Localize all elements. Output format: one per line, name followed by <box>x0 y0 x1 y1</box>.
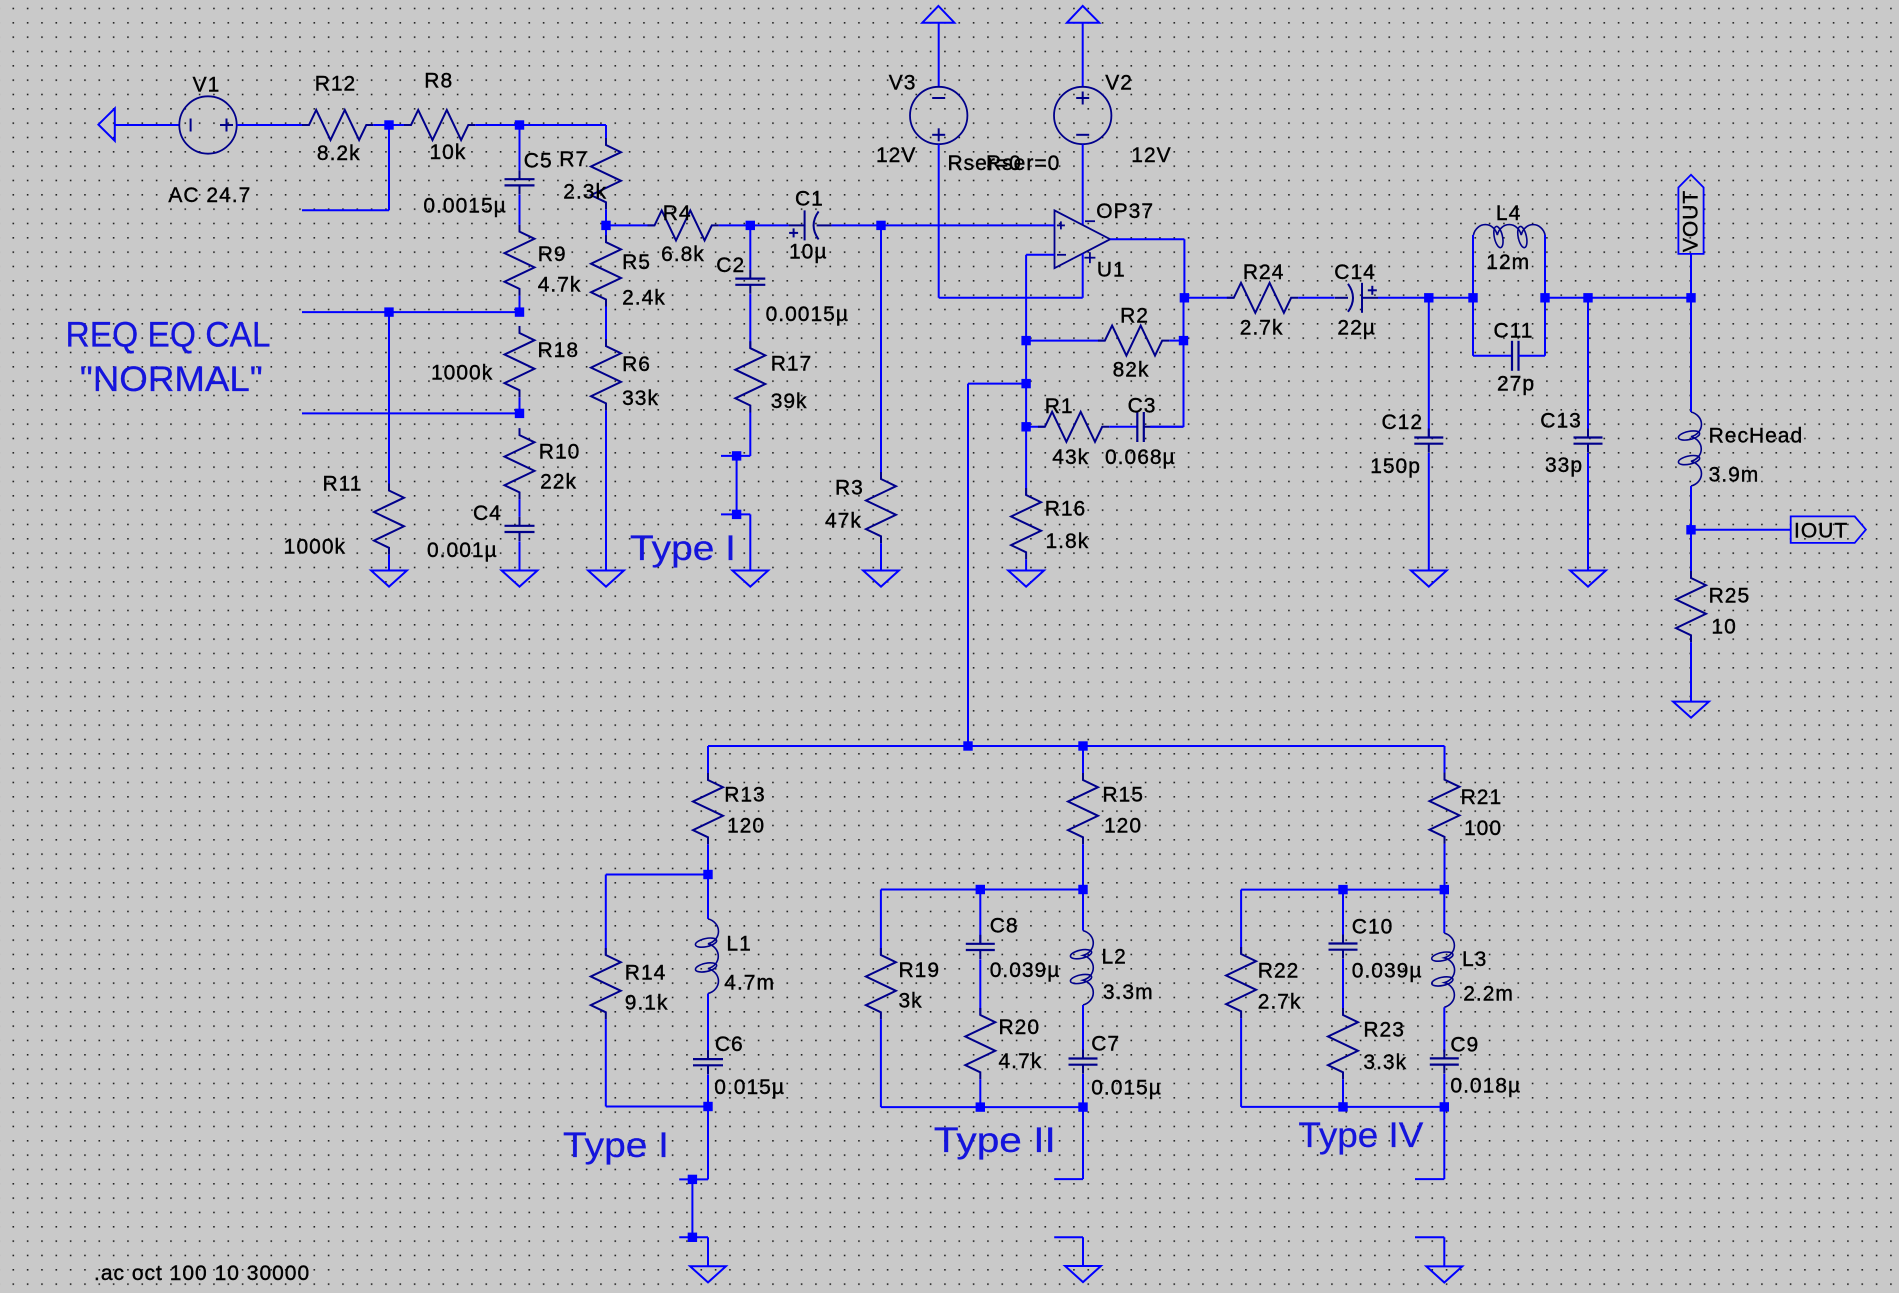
label R2 value <box>1113 358 1150 381</box>
junction <box>1686 525 1695 534</box>
svg-text:0.015µ: 0.015µ <box>714 1076 785 1099</box>
svg-text:22k: 22k <box>540 471 577 494</box>
capacitor C5 <box>505 170 535 194</box>
svg-text:10µ: 10µ <box>789 240 827 263</box>
wire <box>1082 1074 1084 1107</box>
capacitor C11 <box>1512 341 1519 371</box>
wire <box>1150 426 1183 428</box>
label L1 <box>726 932 751 955</box>
svg-text:C8: C8 <box>990 915 1019 938</box>
label R20 <box>999 1016 1041 1039</box>
junction <box>1338 885 1347 894</box>
svg-text:0.039µ: 0.039µ <box>990 959 1061 982</box>
wire <box>1587 453 1589 571</box>
wire <box>1428 453 1430 571</box>
svg-text:0.001µ: 0.001µ <box>427 539 498 562</box>
svg-text:R21: R21 <box>1461 786 1503 809</box>
wire <box>389 124 404 126</box>
wire <box>1691 529 1791 531</box>
svg-text:C11: C11 <box>1494 320 1534 343</box>
junction <box>688 1233 697 1242</box>
label V3 <box>889 72 917 95</box>
junction <box>976 885 985 894</box>
label R9 <box>538 243 567 266</box>
svg-text:12V: 12V <box>1131 144 1171 167</box>
junction <box>1338 1102 1347 1111</box>
svg-text:12V: 12V <box>876 144 916 167</box>
resistor R4 <box>648 210 719 240</box>
wire <box>979 1079 981 1107</box>
wire <box>1588 297 1691 299</box>
label C9 value <box>1450 1074 1521 1097</box>
wire <box>707 875 709 919</box>
junction <box>384 120 393 129</box>
wire <box>519 541 521 570</box>
junction <box>976 1102 985 1111</box>
wire <box>832 224 881 226</box>
junction <box>515 120 524 129</box>
inductor L2 <box>1070 931 1094 1005</box>
wire <box>1054 1236 1083 1238</box>
wire <box>707 1075 709 1107</box>
label R11 <box>323 473 363 496</box>
wire <box>1443 1237 1445 1266</box>
wire <box>1690 298 1692 412</box>
wire <box>707 844 709 874</box>
junction <box>1021 422 1030 431</box>
label R19 value <box>899 990 923 1013</box>
wire <box>1415 1178 1444 1180</box>
label R21 value <box>1464 817 1502 840</box>
wire <box>606 874 708 876</box>
svg-text:R14: R14 <box>625 962 667 985</box>
svg-text:1000k: 1000k <box>284 535 346 558</box>
svg-text:L1: L1 <box>726 932 751 955</box>
svg-text:10k: 10k <box>430 141 467 164</box>
svg-text:C3: C3 <box>1128 395 1157 418</box>
op-amp U1 <box>1055 210 1111 268</box>
wire <box>519 296 521 312</box>
resistor R24 <box>1227 283 1298 313</box>
ground <box>371 571 407 587</box>
resistor R16 <box>1011 488 1041 559</box>
label C1 value <box>789 240 827 263</box>
svg-text:Rser=0: Rser=0 <box>986 152 1060 175</box>
junction <box>1583 293 1592 302</box>
label U1 <box>1097 259 1126 282</box>
comment NORMAL <box>80 359 263 399</box>
label R25 <box>1709 585 1751 608</box>
label L3 <box>1462 948 1487 971</box>
resistor R20 <box>965 1008 995 1079</box>
svg-text:V3: V3 <box>889 72 917 95</box>
label R24 <box>1243 261 1285 284</box>
label R20 value <box>999 1050 1043 1073</box>
resistor R7 <box>591 138 621 209</box>
wire <box>1444 844 1446 890</box>
svg-text:Type IV: Type IV <box>1298 1115 1423 1155</box>
svg-text:R25: R25 <box>1709 585 1751 608</box>
junction <box>1180 293 1189 302</box>
svg-text:R24: R24 <box>1243 261 1285 284</box>
svg-text:R2: R2 <box>1120 304 1149 327</box>
svg-text:.ac oct 100 10 30000: .ac oct 100 10 30000 <box>94 1262 310 1285</box>
wire <box>1473 355 1512 357</box>
svg-text:100: 100 <box>1464 817 1502 840</box>
label C10 value <box>1352 959 1423 982</box>
wire <box>1443 1007 1445 1052</box>
wire <box>1241 1106 1444 1108</box>
wire <box>1026 426 1045 428</box>
svg-text:C4: C4 <box>473 502 502 525</box>
net flag IOUT <box>1791 516 1866 543</box>
label R14 <box>625 962 667 985</box>
label R18 <box>538 339 580 362</box>
svg-text:3.9m: 3.9m <box>1709 464 1760 487</box>
resistor R14 <box>591 948 621 1019</box>
ground <box>1065 1266 1101 1282</box>
wire <box>736 456 738 515</box>
svg-text:10: 10 <box>1711 615 1736 638</box>
wire <box>605 410 607 570</box>
svg-text:C6: C6 <box>715 1033 744 1056</box>
wire <box>1443 890 1445 934</box>
wire <box>749 225 751 269</box>
wire <box>1429 297 1473 299</box>
svg-text:0.039µ: 0.039µ <box>1352 959 1423 982</box>
capacitor C14 <box>1335 283 1378 313</box>
label IOUT <box>1794 520 1848 543</box>
svg-text:R8: R8 <box>424 69 453 92</box>
svg-text:C5: C5 <box>524 150 553 173</box>
svg-text:2.7k: 2.7k <box>1240 316 1284 339</box>
label R3 <box>835 476 864 499</box>
label V2 value <box>1131 144 1171 167</box>
junction <box>1440 885 1449 894</box>
wire <box>1378 297 1429 299</box>
label R7 value <box>563 181 607 204</box>
label V1 <box>193 74 221 97</box>
svg-text:C10: C10 <box>1352 915 1394 938</box>
svg-text:C9: C9 <box>1450 1034 1479 1057</box>
label R22 <box>1258 959 1300 982</box>
svg-text:22µ: 22µ <box>1337 316 1375 339</box>
label C6 <box>715 1033 744 1056</box>
junction <box>515 307 524 316</box>
svg-text:33k: 33k <box>622 387 659 410</box>
wire <box>881 889 1083 891</box>
wire <box>605 225 607 236</box>
label L4 <box>1496 202 1521 225</box>
net flag VOUT <box>1678 175 1703 254</box>
resistor R15 <box>1068 773 1098 844</box>
junction <box>1078 741 1087 750</box>
comment REQ EQ CAL <box>66 315 271 355</box>
power arrow V2 <box>1067 6 1099 23</box>
wire <box>1183 298 1185 427</box>
resistor R19 <box>866 948 896 1019</box>
junction <box>732 451 741 460</box>
wire <box>1183 239 1185 298</box>
wire <box>1519 355 1546 357</box>
voltage source V3 <box>910 87 967 144</box>
wire <box>373 124 389 126</box>
ground <box>1426 1266 1462 1282</box>
resistor R17 <box>735 341 765 412</box>
ground <box>690 1266 726 1282</box>
svg-text:R5: R5 <box>622 251 651 274</box>
wire <box>979 890 981 944</box>
label C12 value <box>1370 455 1421 478</box>
label C4 value <box>427 539 498 562</box>
wire <box>1025 255 1027 427</box>
resistor R2 <box>1098 326 1169 356</box>
ground <box>1411 571 1447 587</box>
wire <box>605 1019 607 1106</box>
label R18 value <box>431 361 493 384</box>
svg-text:Type I: Type I <box>563 1125 669 1165</box>
wire <box>605 875 607 956</box>
ground <box>588 571 624 587</box>
label C8 <box>990 915 1019 938</box>
label C10 <box>1352 915 1394 938</box>
svg-text:2.2m: 2.2m <box>1463 983 1514 1006</box>
resistor R21 <box>1430 773 1460 844</box>
svg-text:R10: R10 <box>539 440 581 463</box>
label R12 value <box>317 142 361 165</box>
label R23 <box>1363 1019 1405 1042</box>
svg-text:12m: 12m <box>1486 251 1530 274</box>
label C9 <box>1450 1034 1479 1057</box>
svg-text:C12: C12 <box>1382 411 1424 434</box>
svg-text:R13: R13 <box>724 784 766 807</box>
wire <box>1298 297 1335 299</box>
svg-text:R22: R22 <box>1258 959 1300 982</box>
wire <box>1415 1236 1444 1238</box>
label R11 value <box>284 535 346 558</box>
label R16 <box>1045 498 1087 521</box>
label R13 value <box>727 815 765 838</box>
svg-text:120: 120 <box>1104 815 1142 838</box>
junction <box>1540 293 1549 302</box>
label spice directive <box>94 1262 310 1285</box>
voltage source V2 <box>1054 87 1111 144</box>
wire <box>519 499 521 516</box>
svg-text:R4: R4 <box>663 202 692 225</box>
label C2 <box>716 254 745 277</box>
wire <box>881 224 1055 226</box>
wire <box>1082 890 1084 931</box>
wire <box>939 297 1083 299</box>
wire <box>1025 427 1027 495</box>
wire <box>679 1178 708 1180</box>
power arrow V3 <box>922 6 954 23</box>
capacitor C7 <box>1069 1050 1098 1074</box>
junction <box>1078 1102 1087 1111</box>
label C7 value <box>1091 1076 1162 1099</box>
label R6 value <box>622 387 659 410</box>
svg-text:6.8k: 6.8k <box>661 243 705 266</box>
junction <box>1179 336 1188 345</box>
label R21 <box>1461 786 1503 809</box>
label R15 value <box>1104 815 1142 838</box>
input arrow port <box>98 108 114 140</box>
wire <box>1428 298 1430 438</box>
junction <box>688 1175 697 1184</box>
capacitor C12 <box>1414 429 1443 453</box>
wire <box>1690 486 1692 530</box>
svg-text:C1: C1 <box>795 187 824 210</box>
wire <box>880 1019 882 1107</box>
svg-text:IOUT: IOUT <box>1794 520 1848 543</box>
svg-text:OP37: OP37 <box>1096 200 1154 223</box>
junction <box>732 510 741 519</box>
wire <box>1545 297 1588 299</box>
comment Type I <box>563 1125 669 1165</box>
capacitor C10 <box>1329 935 1358 959</box>
label R19 <box>899 959 941 982</box>
label L3 value <box>1463 983 1514 1006</box>
svg-text:R16: R16 <box>1045 498 1087 521</box>
label R13 <box>724 784 766 807</box>
label C4 <box>473 502 502 525</box>
wire <box>938 23 940 87</box>
junction <box>1440 1102 1449 1111</box>
svg-text:R17: R17 <box>771 353 813 376</box>
wire <box>606 224 655 226</box>
wire <box>606 1106 708 1108</box>
label R5 <box>622 251 651 274</box>
svg-text:R3: R3 <box>835 476 864 499</box>
wire <box>1026 254 1054 256</box>
resistor R12 <box>302 110 373 140</box>
inductor L1 <box>695 919 719 994</box>
svg-text:4.7m: 4.7m <box>724 971 775 994</box>
wire <box>750 224 788 226</box>
wire <box>1241 889 1444 891</box>
svg-text:L3: L3 <box>1462 948 1487 971</box>
label R15 <box>1102 784 1144 807</box>
label C3 value <box>1105 446 1176 469</box>
svg-text:39k: 39k <box>771 390 808 413</box>
ground <box>732 571 768 587</box>
svg-text:C7: C7 <box>1091 1032 1120 1055</box>
junction <box>1686 293 1695 302</box>
wire <box>1444 746 1446 780</box>
wire <box>519 195 521 225</box>
label R8 value <box>430 141 467 164</box>
wire <box>708 745 1445 747</box>
inductor L3 <box>1431 933 1455 1007</box>
wire <box>302 311 520 313</box>
label R3 value <box>825 509 862 532</box>
svg-text:REQ EQ CAL: REQ EQ CAL <box>66 315 271 355</box>
wire <box>938 144 940 298</box>
label R17 <box>771 353 813 376</box>
junction <box>746 221 755 230</box>
label R7 <box>559 148 588 171</box>
wire <box>968 383 1026 385</box>
svg-text:9.1k: 9.1k <box>625 992 669 1015</box>
resistor R11 <box>374 484 404 555</box>
resistor R9 <box>505 225 535 296</box>
svg-text:0.068µ: 0.068µ <box>1105 446 1176 469</box>
svg-text:0.0015µ: 0.0015µ <box>423 195 506 218</box>
wire <box>1082 1237 1084 1266</box>
junction <box>515 409 524 418</box>
wire <box>302 412 520 414</box>
svg-text:"NORMAL": "NORMAL" <box>80 359 263 399</box>
svg-text:C14: C14 <box>1334 261 1376 284</box>
wire <box>1082 1107 1084 1179</box>
label C11 value <box>1497 372 1535 395</box>
wire <box>1342 959 1344 1015</box>
svg-text:0.015µ: 0.015µ <box>1091 1076 1162 1099</box>
wire <box>707 1237 709 1266</box>
wire <box>1342 890 1344 944</box>
junction <box>1468 293 1477 302</box>
wire <box>749 514 751 570</box>
svg-text:47k: 47k <box>825 509 862 532</box>
wire <box>1082 23 1084 87</box>
svg-text:4.7k: 4.7k <box>999 1050 1043 1073</box>
comment Type IV <box>1298 1115 1423 1155</box>
svg-text:R1: R1 <box>1045 395 1074 418</box>
capacitor C13 <box>1574 429 1603 453</box>
svg-text:82k: 82k <box>1113 358 1150 381</box>
wire <box>1026 340 1105 342</box>
label V2 <box>1105 72 1133 95</box>
wire <box>520 124 607 126</box>
svg-text:C13: C13 <box>1540 409 1582 432</box>
wire <box>979 959 981 1015</box>
comment Type II <box>934 1120 1056 1160</box>
label R16 value <box>1046 530 1090 553</box>
wire <box>1443 1107 1445 1179</box>
wire <box>605 125 607 138</box>
svg-text:Type I: Type I <box>630 528 736 568</box>
label RecHead value <box>1709 464 1760 487</box>
junction <box>963 741 972 750</box>
label V2 Rser <box>986 152 1060 175</box>
label C7 <box>1091 1032 1120 1055</box>
label L4 value <box>1486 251 1530 274</box>
svg-text:V2: V2 <box>1105 72 1133 95</box>
svg-text:4.7k: 4.7k <box>538 274 582 297</box>
wire <box>388 125 390 210</box>
wire <box>1082 844 1084 889</box>
wire <box>1690 254 1692 298</box>
svg-text:R12: R12 <box>315 73 357 96</box>
label R23 value <box>1363 1051 1407 1074</box>
ground <box>863 571 899 587</box>
svg-text:R23: R23 <box>1363 1019 1405 1042</box>
resistor R3 <box>866 472 896 543</box>
wire <box>1544 235 1546 356</box>
svg-text:L2: L2 <box>1102 946 1127 969</box>
label C14 <box>1334 261 1376 284</box>
wire <box>1054 1178 1083 1180</box>
label R4 value <box>661 243 705 266</box>
resistor R10 <box>505 428 535 499</box>
wire <box>1342 1079 1344 1107</box>
svg-text:L4: L4 <box>1496 202 1521 225</box>
label C6 value <box>714 1076 785 1099</box>
label R22 value <box>1258 991 1302 1014</box>
label R10 <box>539 440 581 463</box>
label L2 value <box>1103 981 1154 1004</box>
voltage source V1 <box>179 96 236 153</box>
